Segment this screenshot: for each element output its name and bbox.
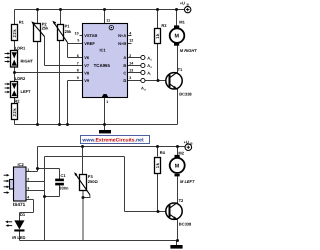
svg-text:1k: 1k bbox=[155, 33, 160, 39]
svg-text:+U: +U bbox=[180, 1, 185, 6]
svg-text:N≡B: N≡B bbox=[118, 41, 126, 46]
svg-text:25k: 25k bbox=[42, 26, 49, 31]
svg-text:R2: R2 bbox=[14, 99, 20, 104]
svg-text:M RIGHT: M RIGHT bbox=[180, 48, 197, 53]
svg-text:22k: 22k bbox=[12, 108, 17, 117]
svg-text:o: o bbox=[150, 65, 152, 69]
svg-text:R3: R3 bbox=[161, 23, 167, 28]
svg-text:IC2: IC2 bbox=[18, 162, 25, 167]
svg-text:M LEFT: M LEFT bbox=[180, 179, 195, 184]
svg-text:VREF: VREF bbox=[84, 41, 95, 46]
svg-text:IC1: IC1 bbox=[100, 47, 107, 52]
svg-text:a: a bbox=[144, 87, 146, 91]
svg-text:C: C bbox=[123, 70, 126, 75]
svg-text:T2: T2 bbox=[179, 198, 184, 203]
svg-text:V7: V7 bbox=[84, 63, 90, 68]
svg-text:IR LED: IR LED bbox=[12, 235, 25, 240]
svg-text:B: B bbox=[190, 142, 193, 146]
svg-text:5: 5 bbox=[77, 39, 79, 43]
svg-text:u: u bbox=[150, 57, 152, 61]
svg-text:+U: +U bbox=[184, 139, 189, 144]
svg-text:3: 3 bbox=[27, 187, 29, 191]
svg-text:VSTAB: VSTAB bbox=[84, 33, 97, 38]
svg-text:25k: 25k bbox=[65, 29, 72, 34]
svg-text:12: 12 bbox=[129, 39, 133, 43]
svg-text:LDR1: LDR1 bbox=[15, 45, 26, 50]
svg-text:2: 2 bbox=[129, 54, 131, 58]
svg-text:RIGHT: RIGHT bbox=[21, 58, 34, 63]
svg-text:4: 4 bbox=[27, 195, 29, 199]
svg-text:11: 11 bbox=[106, 18, 110, 22]
svg-text:R1: R1 bbox=[19, 20, 25, 25]
svg-text:6: 6 bbox=[77, 54, 79, 58]
svg-text:A: A bbox=[123, 55, 126, 60]
svg-text:330n: 330n bbox=[59, 186, 69, 191]
svg-text:D1: D1 bbox=[20, 212, 26, 217]
svg-text:IS471: IS471 bbox=[13, 202, 26, 207]
svg-text:M1: M1 bbox=[179, 19, 185, 24]
svg-text:LDR2: LDR2 bbox=[15, 76, 26, 81]
svg-text:M: M bbox=[175, 164, 180, 170]
svg-text:2: 2 bbox=[27, 178, 29, 182]
svg-text:N≡A: N≡A bbox=[118, 33, 126, 38]
svg-text:TCA965: TCA965 bbox=[94, 63, 111, 68]
svg-text:V8: V8 bbox=[84, 70, 90, 75]
svg-text:3: 3 bbox=[129, 76, 131, 80]
svg-text:7: 7 bbox=[77, 61, 79, 65]
svg-text:i: i bbox=[150, 72, 151, 76]
svg-text:10: 10 bbox=[75, 32, 79, 36]
svg-text:BC338: BC338 bbox=[179, 222, 192, 227]
svg-text:V9: V9 bbox=[84, 78, 90, 83]
svg-text:P1: P1 bbox=[65, 24, 71, 29]
svg-text:B: B bbox=[123, 63, 126, 68]
svg-text:B: B bbox=[187, 3, 190, 7]
svg-text:8: 8 bbox=[77, 69, 79, 73]
svg-text:1k: 1k bbox=[155, 162, 160, 168]
svg-text:www.ExtremeCircuits.net: www.ExtremeCircuits.net bbox=[81, 138, 144, 144]
svg-text:LEFT: LEFT bbox=[21, 89, 32, 94]
svg-text:14: 14 bbox=[129, 61, 133, 65]
svg-text:R4: R4 bbox=[160, 150, 166, 155]
svg-text:13: 13 bbox=[129, 69, 133, 73]
svg-text:22k: 22k bbox=[12, 29, 17, 38]
svg-text:9: 9 bbox=[77, 76, 79, 80]
svg-text:250Ω: 250Ω bbox=[88, 179, 99, 184]
svg-text:C1: C1 bbox=[61, 173, 67, 178]
svg-text:4: 4 bbox=[129, 32, 131, 36]
svg-text:1: 1 bbox=[106, 100, 108, 104]
svg-text:M2: M2 bbox=[178, 150, 184, 155]
svg-text:V6: V6 bbox=[84, 55, 90, 60]
svg-text:T1: T1 bbox=[178, 67, 183, 72]
svg-text:M: M bbox=[175, 34, 180, 40]
svg-text:D: D bbox=[123, 78, 126, 83]
svg-text:1: 1 bbox=[27, 168, 29, 172]
svg-text:BC338: BC338 bbox=[179, 91, 192, 96]
